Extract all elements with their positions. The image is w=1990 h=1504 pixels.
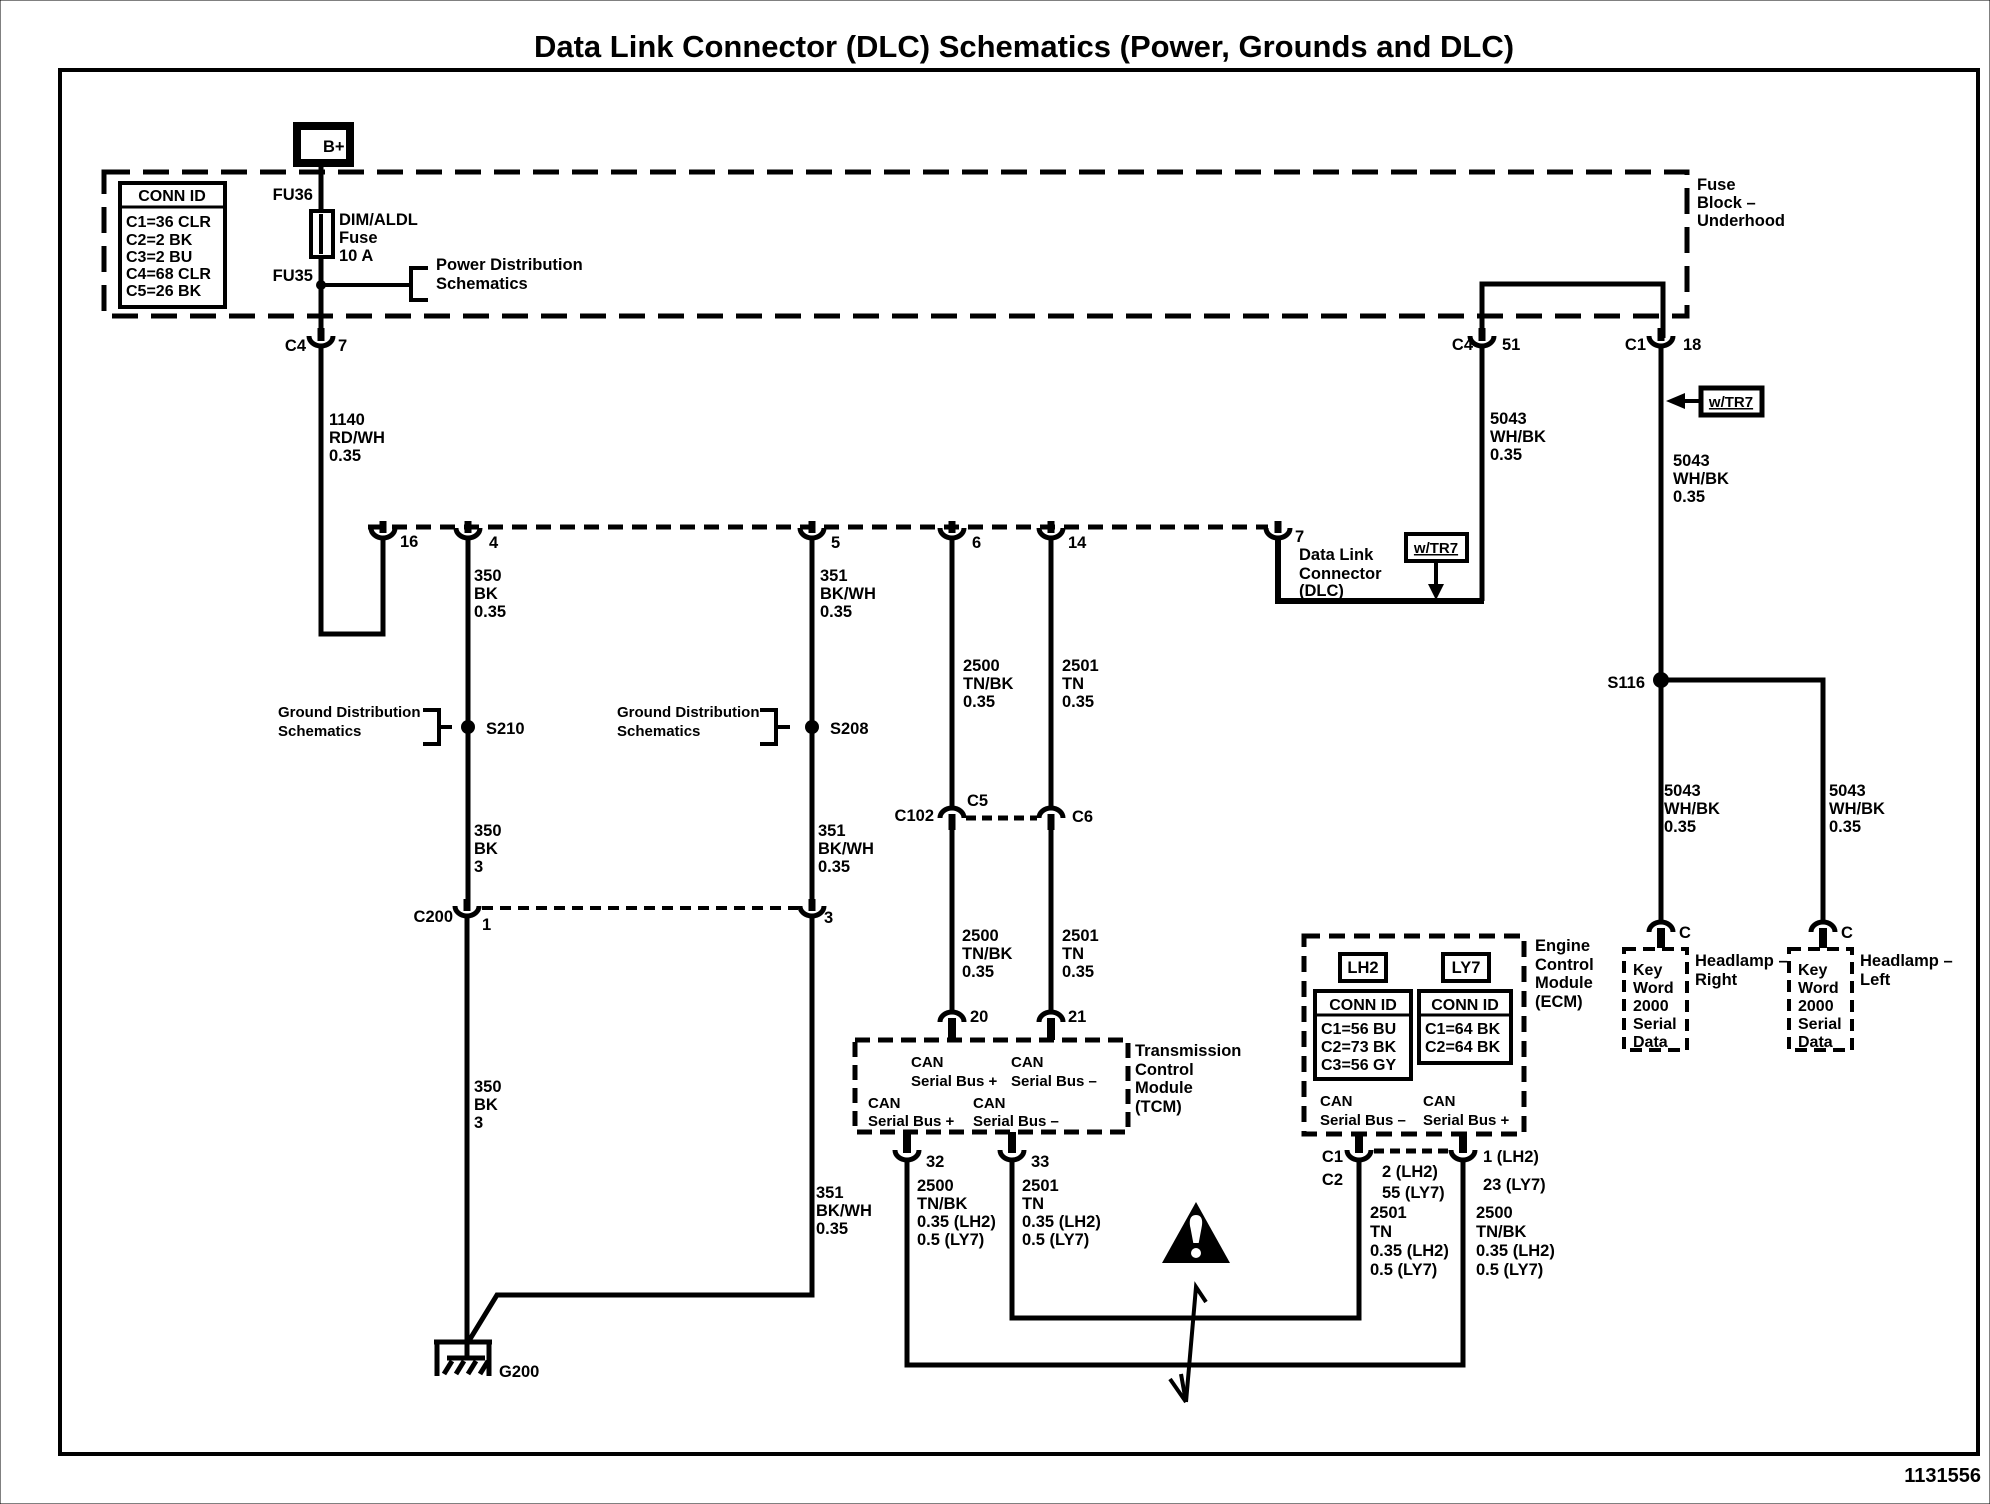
svg-text:Schematics: Schematics [617, 723, 700, 740]
wire 351 BK/WH from C200 pin3 to G200 [467, 916, 812, 1344]
svg-text:C2: C2 [1322, 1171, 1343, 1189]
svg-text:CONN ID: CONN ID [138, 188, 206, 205]
svg-text:0.35: 0.35 [1673, 488, 1705, 506]
svg-text:4: 4 [489, 534, 499, 552]
svg-text:Transmission: Transmission [1135, 1042, 1241, 1060]
TCM pin 32 [903, 1132, 911, 1153]
svg-text:FU35: FU35 [273, 267, 313, 285]
svg-text:1 (LH2): 1 (LH2) [1483, 1148, 1539, 1166]
svg-text:1: 1 [482, 916, 491, 934]
fuse block underhood dashed box [104, 172, 1687, 316]
svg-text:(ECM): (ECM) [1535, 993, 1583, 1011]
svg-text:Control: Control [1135, 1061, 1194, 1079]
svg-text:2000: 2000 [1633, 998, 1669, 1015]
connector C4 pin 51 [1470, 336, 1494, 346]
wire fuse to C4 pin7 [319, 257, 324, 338]
svg-text:C1=64 BK: C1=64 BK [1425, 1021, 1501, 1038]
svg-text:7: 7 [1295, 528, 1304, 546]
svg-text:CAN: CAN [1320, 1093, 1353, 1110]
wire S116 branch to left headlamp [1661, 680, 1823, 924]
svg-text:C: C [1841, 924, 1853, 942]
svg-text:BK: BK [474, 585, 498, 603]
wire 350 BK from DLC pin 4 to C200 pin 1 [466, 538, 471, 908]
wire B+ to fuse FU36 [319, 163, 324, 211]
svg-text:Serial Bus +: Serial Bus + [911, 1073, 998, 1090]
svg-text:2500: 2500 [962, 927, 999, 945]
svg-text:7: 7 [338, 337, 347, 355]
svg-text:350: 350 [474, 567, 502, 585]
svg-text:2500: 2500 [917, 1177, 954, 1195]
svg-text:23 (LY7): 23 (LY7) [1483, 1176, 1546, 1194]
key word 2000 serial data box (headlamp right) [1624, 949, 1687, 1050]
svg-text:0.5 (LY7): 0.5 (LY7) [1476, 1261, 1543, 1279]
svg-text:CAN: CAN [1423, 1093, 1456, 1110]
svg-text:WH/BK: WH/BK [1829, 800, 1885, 818]
svg-text:WH/BK: WH/BK [1673, 470, 1729, 488]
wire 2500 TN/BK from C5 to TCM pin 20 [950, 828, 955, 1014]
svg-text:350: 350 [474, 1078, 502, 1096]
connector C1 pin 18 [1649, 336, 1673, 346]
svg-text:C2=64 BK: C2=64 BK [1425, 1039, 1501, 1056]
label box LY7 [1443, 954, 1489, 981]
svg-text:Serial Bus –: Serial Bus – [1320, 1112, 1406, 1129]
flag w/TR7 (arrow into wire) [1701, 388, 1762, 415]
connector pin C (headlamp left) [1811, 922, 1835, 932]
wire to power distribution reference [321, 283, 411, 287]
svg-text:Ground Distribution: Ground Distribution [278, 704, 420, 721]
svg-text:Fuse: Fuse [1697, 176, 1736, 194]
svg-text:33: 33 [1031, 1153, 1049, 1171]
connector C102 pin C6 [1039, 808, 1063, 818]
svg-text:55 (LY7): 55 (LY7) [1382, 1184, 1445, 1202]
svg-text:Left: Left [1860, 971, 1891, 989]
bracket ground distribution reference (S208) [760, 710, 776, 744]
svg-text:0.35: 0.35 [818, 858, 850, 876]
connector C200 pin 3 [800, 906, 824, 916]
fuse FU36 DIM/ALDL 10A [311, 211, 333, 257]
svg-text:CAN: CAN [868, 1095, 901, 1112]
splice S210 [461, 720, 475, 734]
svg-text:Control: Control [1535, 956, 1594, 974]
svg-text:C6: C6 [1072, 808, 1093, 826]
svg-text:BK/WH: BK/WH [818, 840, 874, 858]
svg-text:0.35: 0.35 [962, 963, 994, 981]
svg-text:C5=26 BK: C5=26 BK [126, 283, 202, 300]
svg-text:350: 350 [474, 822, 502, 840]
svg-text:Data: Data [1798, 1034, 1833, 1051]
svg-text:Engine: Engine [1535, 937, 1590, 955]
splice S116 [1653, 672, 1669, 688]
DLC pin 7 [1266, 528, 1290, 538]
svg-text:Data Link: Data Link [1299, 546, 1374, 564]
svg-text:Serial Bus –: Serial Bus – [1011, 1073, 1097, 1090]
svg-text:BK: BK [474, 840, 498, 858]
TCM pin 21 [1039, 1012, 1063, 1022]
splice S208 [805, 720, 819, 734]
svg-text:Data: Data [1633, 1034, 1668, 1051]
svg-text:51: 51 [1502, 336, 1520, 354]
TCM pin 20 [940, 1012, 964, 1022]
dashed link ECM pins [1374, 1149, 1450, 1154]
svg-text:C: C [1679, 924, 1691, 942]
svg-text:S116: S116 [1607, 674, 1645, 692]
svg-text:0.5 (LY7): 0.5 (LY7) [917, 1231, 984, 1249]
svg-text:5043: 5043 [1664, 782, 1701, 800]
svg-text:32: 32 [926, 1153, 944, 1171]
svg-text:Serial: Serial [1798, 1016, 1842, 1033]
svg-text:Ground Distribution: Ground Distribution [617, 704, 759, 721]
DLC pin 5 [800, 528, 824, 538]
svg-text:0.35: 0.35 [474, 603, 506, 621]
svg-text:0.35 (LH2): 0.35 (LH2) [1022, 1213, 1101, 1231]
svg-text:WH/BK: WH/BK [1664, 800, 1720, 818]
svg-text:2 (LH2): 2 (LH2) [1382, 1163, 1438, 1181]
ECM pin C1/C2 [1355, 1134, 1363, 1153]
svg-text:21: 21 [1068, 1008, 1086, 1026]
svg-text:C5: C5 [967, 792, 988, 810]
svg-text:3: 3 [474, 858, 483, 876]
svg-text:CONN ID: CONN ID [1329, 997, 1397, 1014]
svg-text:Key: Key [1633, 962, 1662, 979]
svg-text:w/TR7: w/TR7 [1413, 540, 1458, 557]
svg-text:0.35: 0.35 [1062, 693, 1094, 711]
svg-text:10 A: 10 A [339, 247, 373, 265]
label box LH2 [1340, 954, 1386, 981]
svg-text:TN/BK: TN/BK [1476, 1223, 1526, 1241]
svg-text:S208: S208 [830, 720, 869, 738]
svg-text:TN/BK: TN/BK [963, 675, 1013, 693]
svg-text:Word: Word [1798, 980, 1839, 997]
DLC pin 4 [456, 528, 480, 538]
svg-text:Serial Bus +: Serial Bus + [1423, 1112, 1510, 1129]
svg-text:Module: Module [1135, 1079, 1193, 1097]
svg-text:B+: B+ [323, 138, 345, 156]
DLC pin 16 [371, 528, 395, 538]
key word 2000 serial data box (headlamp left) [1789, 949, 1852, 1050]
connector C4 pin 7 (fuse block output) [309, 336, 333, 346]
ECM pin 1 [1459, 1134, 1467, 1153]
svg-text:TN: TN [1062, 675, 1084, 693]
svg-text:C3=2 BU: C3=2 BU [126, 249, 192, 266]
svg-text:Underhood: Underhood [1697, 212, 1785, 230]
svg-text:0.35: 0.35 [329, 447, 361, 465]
svg-text:Module: Module [1535, 974, 1593, 992]
svg-text:Serial Bus –: Serial Bus – [973, 1113, 1059, 1130]
svg-text:TN: TN [1062, 945, 1084, 963]
svg-text:C1=56 BU: C1=56 BU [1321, 1021, 1396, 1038]
svg-text:WH/BK: WH/BK [1490, 428, 1546, 446]
svg-text:C4: C4 [285, 337, 307, 355]
svg-text:S210: S210 [486, 720, 525, 738]
svg-text:C2=73 BK: C2=73 BK [1321, 1039, 1397, 1056]
power symbol B+ [297, 126, 350, 163]
svg-text:CAN: CAN [1011, 1054, 1044, 1071]
svg-text:351: 351 [818, 822, 846, 840]
wire 2500 TCM pin32 to ECM pin 1 [907, 1158, 1463, 1365]
svg-text:Fuse: Fuse [339, 229, 378, 247]
connector C200 pin 1 [455, 906, 479, 916]
junction FU35 [316, 280, 326, 290]
svg-text:C102: C102 [895, 807, 934, 825]
svg-text:(DLC): (DLC) [1299, 582, 1344, 600]
svg-text:0.35: 0.35 [1490, 446, 1522, 464]
wire 351 BK/WH from DLC pin 5 to C200 pin 3 [810, 538, 815, 908]
svg-text:0.35 (LH2): 0.35 (LH2) [1370, 1242, 1449, 1260]
svg-text:6: 6 [972, 534, 981, 552]
svg-text:Data Link Connector (DLC) Sche: Data Link Connector (DLC) Schematics (Po… [534, 29, 1514, 64]
svg-text:1131556: 1131556 [1904, 1465, 1981, 1487]
svg-text:TN/BK: TN/BK [917, 1195, 967, 1213]
svg-text:(TCM): (TCM) [1135, 1098, 1182, 1116]
transmission control module TCM dashed box [855, 1040, 1128, 1132]
svg-text:3: 3 [474, 1114, 483, 1132]
svg-text:CONN ID: CONN ID [1431, 997, 1499, 1014]
ground G200 [434, 1340, 492, 1345]
svg-text:Word: Word [1633, 980, 1674, 997]
warning triangle [1162, 1202, 1230, 1263]
svg-text:TN/BK: TN/BK [962, 945, 1012, 963]
svg-text:C4=68 CLR: C4=68 CLR [126, 266, 211, 283]
svg-text:C1: C1 [1625, 336, 1646, 354]
svg-text:1140: 1140 [329, 411, 365, 429]
svg-text:Power Distribution: Power Distribution [436, 256, 583, 274]
svg-text:Headlamp –: Headlamp – [1860, 952, 1953, 970]
svg-text:2000: 2000 [1798, 998, 1834, 1015]
wire 2500 TN/BK from DLC pin 6 to C102 C5 [950, 538, 955, 810]
svg-text:5043: 5043 [1829, 782, 1866, 800]
wire 2501 TN from DLC pin 14 to C102 C6 [1049, 538, 1054, 810]
wire 5043 WH/BK from C1-18 to S116 [1659, 346, 1664, 924]
svg-text:C1: C1 [1322, 1148, 1343, 1166]
svg-text:C4: C4 [1452, 336, 1474, 354]
wire 350 BK 3 from C200 pin1 to G200 [465, 916, 470, 1357]
svg-text:CAN: CAN [911, 1054, 944, 1071]
svg-text:0.35: 0.35 [820, 603, 852, 621]
svg-text:C1=36 CLR: C1=36 CLR [126, 214, 211, 231]
svg-text:2501: 2501 [1062, 927, 1099, 945]
svg-text:Serial Bus +: Serial Bus + [868, 1113, 955, 1130]
svg-text:0.5 (LY7): 0.5 (LY7) [1370, 1261, 1437, 1279]
svg-text:20: 20 [970, 1008, 988, 1026]
DLC pin 14 [1039, 528, 1063, 538]
DLC pin 6 [940, 528, 964, 538]
dashed link C200 pins [482, 906, 798, 910]
svg-text:0.35: 0.35 [1664, 818, 1696, 836]
svg-text:Serial: Serial [1633, 1016, 1677, 1033]
svg-text:Headlamp –: Headlamp – [1695, 952, 1788, 970]
connector ID table (fuse block) [120, 183, 225, 307]
svg-text:C2=2 BK: C2=2 BK [126, 232, 193, 249]
svg-text:C200: C200 [414, 908, 453, 926]
svg-text:0.35: 0.35 [1062, 963, 1094, 981]
svg-text:BK/WH: BK/WH [816, 1202, 872, 1220]
TCM pin 33 [1008, 1132, 1016, 1153]
svg-text:FU36: FU36 [273, 186, 313, 204]
connector C102 pin C5 [940, 808, 964, 818]
svg-text:w/TR7: w/TR7 [1708, 394, 1753, 411]
data link connector DLC dashed bar [368, 525, 1268, 530]
svg-text:LY7: LY7 [1452, 959, 1481, 977]
svg-text:TN: TN [1022, 1195, 1044, 1213]
svg-text:3: 3 [824, 909, 833, 927]
svg-text:BK/WH: BK/WH [820, 585, 876, 603]
svg-text:TN: TN [1370, 1223, 1392, 1241]
svg-text:Connector: Connector [1299, 565, 1382, 583]
svg-text:Right: Right [1695, 971, 1738, 989]
svg-text:14: 14 [1068, 534, 1087, 552]
engine control module ECM dashed box [1304, 936, 1524, 1134]
svg-text:5043: 5043 [1673, 452, 1710, 470]
wire 2501 TCM pin33 to ECM pin C1/C2 [1012, 1158, 1359, 1318]
svg-text:2501: 2501 [1062, 657, 1099, 675]
svg-text:Key: Key [1798, 962, 1827, 979]
svg-text:CAN: CAN [973, 1095, 1006, 1112]
connector ID table LH2 [1315, 991, 1411, 1079]
svg-text:0.5 (LY7): 0.5 (LY7) [1022, 1231, 1089, 1249]
svg-text:C3=56 GY: C3=56 GY [1321, 1057, 1396, 1074]
svg-text:G200: G200 [499, 1363, 539, 1381]
wire 1140 RD/WH from C4 pin 7 to DLC pin 16 [321, 346, 383, 634]
svg-text:RD/WH: RD/WH [329, 429, 385, 447]
bracket ground distribution reference (S210) [423, 710, 439, 744]
svg-text:0.35: 0.35 [1829, 818, 1861, 836]
connector ID table LY7 [1419, 991, 1511, 1063]
svg-text:0.35 (LH2): 0.35 (LH2) [917, 1213, 996, 1231]
svg-text:LH2: LH2 [1347, 959, 1378, 977]
wire jumper inside fuse block (C4-51 to C1-18) [1482, 284, 1663, 338]
callout arrow [1186, 1287, 1206, 1402]
svg-text:16: 16 [400, 533, 418, 551]
wire 2501 TN from C6 to TCM pin 21 [1049, 828, 1054, 1014]
svg-text:Schematics: Schematics [436, 275, 528, 293]
wire 5043 WH/BK from C4-51 to DLC bottom [1480, 346, 1485, 601]
bracket power distribution reference [411, 268, 428, 300]
dashed link C5 to C6 [966, 816, 1037, 821]
svg-text:2500: 2500 [963, 657, 1000, 675]
svg-text:18: 18 [1683, 336, 1701, 354]
flag w/TR7 (DLC) [1406, 534, 1467, 561]
svg-text:BK: BK [474, 1096, 498, 1114]
svg-text:0.35: 0.35 [963, 693, 995, 711]
svg-text:Block –: Block – [1697, 194, 1756, 212]
svg-text:DIM/ALDL: DIM/ALDL [339, 211, 418, 229]
svg-text:2500: 2500 [1476, 1204, 1513, 1222]
svg-text:2501: 2501 [1370, 1204, 1407, 1222]
wire DLC pin 7 bottom run [1278, 538, 1484, 601]
svg-text:351: 351 [816, 1184, 844, 1202]
svg-text:0.35 (LH2): 0.35 (LH2) [1476, 1242, 1555, 1260]
svg-text:Schematics: Schematics [278, 723, 361, 740]
connector pin C (headlamp right) [1649, 922, 1673, 932]
svg-text:5: 5 [831, 534, 840, 552]
svg-text:351: 351 [820, 567, 848, 585]
svg-text:0.35: 0.35 [816, 1220, 848, 1238]
svg-text:2501: 2501 [1022, 1177, 1059, 1195]
svg-text:5043: 5043 [1490, 410, 1527, 428]
